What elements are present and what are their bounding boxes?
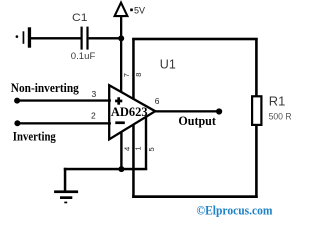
capacitor C1 left plate: [81, 27, 83, 50]
svg-text:8: 8: [134, 73, 143, 77]
svg-text:2: 2: [91, 111, 96, 121]
pin 1 wire down to bottom rail: [132, 120, 135, 198]
svg-text:C1: C1: [72, 12, 88, 24]
pin 5 wire: [145, 113, 147, 170]
junction dot at +5V node: [118, 35, 124, 41]
svg-text:AD623: AD623: [111, 104, 148, 119]
capacitor C1 right plate: [86, 27, 88, 50]
U1 box bottom rail: [132, 195, 258, 198]
op-amp U1 triangle AD623: [109, 85, 155, 139]
svg-text:7: 7: [122, 73, 131, 77]
pin 8 wire: [132, 38, 135, 100]
inverting input dot: [14, 120, 20, 126]
ground bar 2: [60, 196, 72, 199]
ground rail wire: [64, 168, 147, 171]
svg-text:5: 5: [147, 147, 156, 151]
svg-text:3: 3: [92, 89, 97, 99]
inverting input wire (pin 2): [17, 122, 111, 124]
+5V stem / pin 7 wire: [120, 15, 122, 93]
svg-text:4: 4: [123, 147, 132, 151]
svg-text:Output: Output: [178, 113, 216, 128]
output wire (pin 6): [154, 110, 219, 112]
minus sign inside op-amp: [115, 121, 125, 124]
svg-text:500 R: 500 R: [269, 111, 292, 121]
svg-text:5V: 5V: [134, 6, 145, 16]
svg-text:1: 1: [134, 146, 143, 150]
wire terminal to C1: [30, 37, 82, 39]
non-inverting input wire (pin 3): [17, 99, 111, 101]
non-inverting input dot: [14, 98, 20, 104]
input terminal dot: [16, 35, 19, 38]
junction dot on ground rail: [118, 166, 124, 172]
ground bar 3: [64, 202, 67, 204]
output terminal dot: [216, 108, 222, 114]
svg-text:©Elprocus.com: ©Elprocus.com: [197, 202, 273, 217]
svg-text:Non-inverting: Non-inverting: [11, 80, 79, 95]
U1 box right rail lower: [255, 126, 258, 199]
ground drop wire: [64, 168, 67, 192]
resistor R1 body: [252, 96, 261, 125]
wire C1 to +5V node: [89, 37, 122, 39]
pin 4 wire: [120, 128, 122, 170]
U1 box top rail: [132, 38, 258, 41]
svg-text:U1: U1: [160, 56, 176, 71]
ground bar 1: [54, 190, 78, 193]
svg-text:R1: R1: [269, 94, 286, 109]
input terminal thick bar: [28, 27, 31, 47]
plus mark of +5V label: [130, 9, 133, 12]
svg-text:0.1uF: 0.1uF: [71, 51, 96, 61]
input terminal thin bar: [23, 31, 25, 44]
svg-text:6: 6: [155, 96, 160, 106]
U1 box right rail upper: [255, 38, 258, 97]
+5V supply symbol triangle: [115, 3, 128, 17]
svg-text:Inverting: Inverting: [13, 128, 56, 143]
plus sign inside op-amp: [115, 100, 122, 103]
